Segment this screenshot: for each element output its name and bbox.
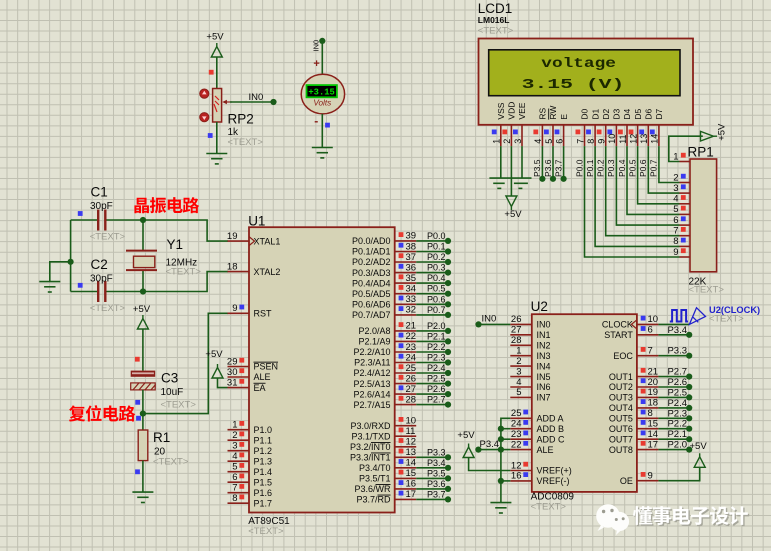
svg-text:P3.4: P3.4	[480, 439, 500, 450]
svg-text:OUT8: OUT8	[609, 445, 633, 455]
svg-text:14: 14	[406, 458, 417, 469]
junction reset node	[140, 411, 146, 417]
svg-text:<TEXT>: <TEXT>	[689, 284, 725, 295]
wire	[658, 407, 689, 409]
svg-text:ALE: ALE	[254, 372, 271, 382]
LCD pin 14 D7	[658, 125, 660, 146]
svg-text:RS: RS	[538, 107, 548, 119]
svg-text:P1.7: P1.7	[254, 498, 273, 508]
svg-text:11: 11	[406, 426, 416, 437]
node P3.5	[539, 176, 545, 182]
svg-text:P0.0: P0.0	[427, 231, 446, 241]
power +5V arrow OE	[694, 453, 705, 467]
svg-text:25: 25	[511, 408, 522, 419]
svg-text:+5V: +5V	[717, 123, 728, 141]
node P2.1	[445, 338, 451, 344]
svg-text:P2.2: P2.2	[427, 342, 446, 352]
svg-text:P3.4: P3.4	[667, 325, 687, 336]
wire	[585, 146, 680, 257]
svg-text:4: 4	[673, 194, 678, 205]
svg-text:OUT3: OUT3	[609, 393, 633, 403]
LCD pin 5 RW	[552, 125, 554, 146]
svg-text:1k: 1k	[228, 127, 240, 138]
svg-text:P1.5: P1.5	[254, 477, 273, 487]
svg-text:6: 6	[648, 325, 653, 336]
svg-text:RW: RW	[548, 106, 558, 120]
svg-text:OE: OE	[620, 476, 633, 486]
wire	[416, 393, 448, 395]
U2 pin 4 IN6	[510, 386, 532, 388]
wire +5V to C3	[142, 329, 144, 371]
svg-text:P2.5: P2.5	[427, 374, 446, 384]
U2 pin 20 OUT2	[637, 386, 659, 388]
svg-text:P2.2/A10: P2.2/A10	[353, 347, 390, 357]
svg-text:P3.4: P3.4	[427, 458, 446, 468]
wire voltmeter to ground	[321, 114, 323, 148]
svg-text:38: 38	[406, 241, 417, 252]
RP1 pin 4	[680, 203, 691, 205]
wire RP2 wiper to IN0	[230, 101, 274, 103]
svg-text:24: 24	[511, 419, 522, 430]
node P2.5	[445, 381, 451, 387]
U1 pin 21 P2.0/A8	[395, 330, 417, 332]
svg-text:30pF: 30pF	[90, 201, 113, 212]
svg-text:31: 31	[227, 377, 238, 388]
wire	[416, 372, 448, 374]
svg-text:8: 8	[232, 493, 237, 504]
svg-text:IN4: IN4	[537, 361, 551, 371]
svg-text:P3.7/RD: P3.7/RD	[356, 495, 391, 505]
junction XTAL1 net	[140, 217, 146, 223]
node P2.0	[445, 328, 451, 334]
svg-text:P2.7: P2.7	[667, 367, 687, 378]
svg-text:P0.3: P0.3	[606, 159, 616, 177]
RP1 pin 1	[680, 161, 691, 163]
node P3.6	[445, 486, 451, 492]
junction ADD C	[498, 436, 504, 442]
wire	[541, 146, 543, 179]
svg-text:18: 18	[227, 261, 238, 272]
junction VREF-	[498, 478, 504, 484]
U1 pin 5 P1.4	[228, 471, 250, 473]
svg-text:26: 26	[406, 373, 417, 384]
U1 pin 39 P0.0/AD0	[395, 240, 417, 242]
LCD pin 9 D2	[605, 125, 607, 146]
svg-text:U2: U2	[531, 299, 548, 314]
crystal Y1	[126, 251, 157, 271]
node P3.7	[561, 176, 567, 182]
svg-text:P2.1: P2.1	[667, 429, 687, 440]
wire	[658, 449, 689, 451]
svg-text:ALE: ALE	[537, 445, 554, 455]
svg-text:IN6: IN6	[537, 382, 551, 392]
wire	[669, 136, 703, 161]
svg-text:23: 23	[511, 429, 522, 440]
wire	[563, 146, 565, 179]
U1 pin 2 P1.1	[228, 439, 250, 441]
svg-text:<TEXT>: <TEXT>	[161, 399, 197, 410]
svg-text:4: 4	[533, 139, 543, 144]
wire	[416, 456, 448, 458]
svg-text:<TEXT>: <TEXT>	[228, 137, 264, 148]
U1 pin 31 EA	[228, 387, 250, 389]
U2 pin 7 EOC	[637, 355, 659, 357]
LCD pin 8 D1	[594, 125, 596, 146]
node P2.2	[686, 426, 692, 432]
node P2.6	[445, 391, 451, 397]
U1 pin 7 P1.6	[228, 492, 250, 494]
U1 pin 30 ALE	[228, 376, 250, 378]
svg-text:<TEXT>: <TEXT>	[153, 457, 189, 468]
svg-text:D1: D1	[590, 108, 600, 119]
svg-text:P0.5: P0.5	[627, 159, 637, 177]
LCD LM016L body	[479, 39, 694, 125]
svg-text:24: 24	[406, 352, 417, 363]
svg-text:P3.3: P3.3	[667, 346, 687, 357]
wire	[416, 383, 448, 385]
wire	[416, 467, 448, 469]
svg-text:5: 5	[673, 204, 678, 215]
U2 pin 23 ADD C	[510, 438, 532, 440]
svg-text:P0.6: P0.6	[427, 294, 446, 304]
svg-text:P0.0/AD0: P0.0/AD0	[352, 236, 391, 246]
U2 pin 1 IN3	[510, 355, 532, 357]
U1 pin 17 P3.7	[395, 498, 417, 500]
wire	[658, 428, 689, 430]
svg-text:7: 7	[648, 346, 653, 357]
indicator C2	[78, 283, 83, 288]
node P2.4	[686, 405, 692, 411]
U1 pin 26 P2.5/A13	[395, 383, 417, 385]
U2 pin 15 OUT6	[637, 428, 659, 430]
indicator RP2 bottom	[208, 133, 213, 138]
svg-text:P3.0/RXD: P3.0/RXD	[350, 421, 391, 431]
ground LCD VEE	[514, 183, 528, 188]
wire	[416, 498, 448, 500]
svg-text:P2.4: P2.4	[427, 363, 446, 373]
node P2.4	[445, 370, 451, 376]
watermark text	[634, 508, 653, 527]
svg-text:P2.6/A14: P2.6/A14	[353, 389, 390, 399]
svg-text:9: 9	[232, 303, 237, 314]
U1 pin 33 P0.6/AD6	[395, 303, 417, 305]
U1 pin 24 P2.3/A11	[395, 362, 417, 364]
svg-text:EOC: EOC	[613, 351, 633, 361]
svg-text:P3.5: P3.5	[427, 468, 446, 478]
wire	[616, 146, 679, 225]
svg-text:IN3: IN3	[537, 351, 551, 361]
svg-text:P3.5/T1: P3.5/T1	[359, 474, 391, 484]
node P3.4	[686, 332, 692, 338]
svg-text:27: 27	[511, 325, 522, 336]
svg-text:P0.7/AD7: P0.7/AD7	[352, 310, 391, 320]
node P0.6	[445, 301, 451, 307]
U1 pin 28 P2.7/A15	[395, 404, 417, 406]
svg-text:3: 3	[513, 139, 523, 144]
wire	[416, 314, 448, 316]
ground crystal	[39, 282, 60, 292]
ground RP2	[206, 154, 227, 164]
svg-text:4: 4	[516, 377, 521, 388]
svg-text:OUT2: OUT2	[609, 382, 633, 392]
svg-text:2: 2	[232, 430, 237, 441]
U1 pin 15 P3.5	[395, 477, 417, 479]
wire	[416, 303, 448, 305]
LCD pin 3 VEE	[521, 125, 523, 146]
RP1 pin 8	[680, 245, 691, 247]
junction ADD B	[498, 426, 504, 432]
U2 pin 25 ADD A	[510, 417, 532, 419]
svg-text:3: 3	[516, 366, 521, 377]
wire reset to RST	[143, 313, 228, 413]
svg-text:+5V: +5V	[205, 349, 223, 360]
resistor pack RP1	[690, 159, 717, 272]
svg-text:1: 1	[673, 151, 678, 162]
svg-text:P2.4: P2.4	[667, 398, 687, 409]
wire	[416, 330, 448, 332]
U2 pin 14 OUT7	[637, 438, 659, 440]
svg-text:RST: RST	[254, 309, 273, 319]
svg-text:+5V: +5V	[457, 430, 475, 441]
svg-text:P2.3/A11: P2.3/A11	[354, 358, 390, 368]
LCD pin 1 VSS	[500, 125, 502, 146]
svg-text:32: 32	[406, 305, 417, 316]
svg-text:P1.0: P1.0	[254, 425, 273, 435]
wire	[510, 146, 512, 195]
node P0.1	[445, 248, 451, 254]
svg-text:+5V: +5V	[690, 441, 708, 452]
U2 pin 2 IN4	[510, 365, 532, 367]
U1 pin 22 P2.1/A9	[395, 340, 417, 342]
svg-text:P2.0/A8: P2.0/A8	[358, 326, 390, 336]
op-amp U1 body AT89C51	[249, 227, 395, 512]
node IN0 at RP2	[270, 99, 276, 105]
svg-text:<TEXT>: <TEXT>	[709, 314, 744, 324]
node P0.4	[445, 280, 451, 286]
wire	[658, 323, 689, 325]
RP1 pin 5	[680, 213, 691, 215]
svg-text:PSEN: PSEN	[254, 362, 279, 372]
svg-text:P2.0: P2.0	[427, 321, 446, 331]
svg-text:Volts: Volts	[313, 99, 331, 108]
node P2.1	[686, 436, 692, 442]
wire	[501, 438, 510, 440]
wire	[658, 334, 689, 336]
U2 pin 9 OE	[637, 480, 659, 482]
svg-text:+5V: +5V	[206, 31, 224, 42]
svg-text:P3.6/WR: P3.6/WR	[354, 484, 391, 494]
power +5V arrow C3	[137, 315, 148, 329]
svg-text:33: 33	[406, 294, 417, 305]
caption reset circuit (red)	[69, 405, 85, 421]
svg-text:D4: D4	[622, 108, 632, 119]
node P0.2	[445, 259, 451, 265]
wire from crystal bottom	[142, 270, 144, 291]
svg-text:IN5: IN5	[537, 372, 551, 382]
wire bus to ground	[50, 262, 71, 282]
svg-text:+3.15: +3.15	[308, 87, 334, 97]
svg-text:OUT1: OUT1	[609, 372, 633, 382]
wire	[489, 177, 531, 179]
svg-text:17: 17	[648, 439, 659, 450]
svg-text:XTAL2: XTAL2	[254, 267, 281, 277]
svg-text:OUT4: OUT4	[609, 403, 633, 413]
wire C2 left	[71, 291, 99, 293]
svg-text:IN0: IN0	[537, 320, 551, 330]
svg-text:RP2: RP2	[228, 112, 254, 127]
U2 pin 3 IN5	[510, 376, 532, 378]
svg-text:IN0: IN0	[312, 40, 321, 52]
svg-text:P0.3/AD3: P0.3/AD3	[352, 268, 391, 278]
svg-text:<TEXT>: <TEXT>	[90, 303, 126, 314]
svg-text:P0.4/AD4: P0.4/AD4	[352, 278, 391, 288]
svg-text:P2.1/A9: P2.1/A9	[358, 337, 390, 347]
RP2 adjust buttons	[200, 89, 209, 98]
RP1 pin 3	[680, 192, 691, 194]
svg-text:28: 28	[406, 394, 417, 405]
svg-text:P2.6: P2.6	[667, 377, 687, 388]
LCD pin 10 D3	[615, 125, 617, 146]
svg-text:ADD C: ADD C	[537, 434, 566, 444]
svg-text:D7: D7	[654, 108, 664, 119]
svg-text:<TEXT>: <TEXT>	[90, 232, 126, 243]
svg-text:10: 10	[607, 134, 617, 144]
wire	[658, 376, 689, 378]
svg-text:P2.7/A15: P2.7/A15	[353, 400, 390, 410]
U1 pin 13 P3.3	[395, 456, 417, 458]
svg-text:EA: EA	[254, 383, 266, 393]
U2 pin 28 IN2	[510, 344, 532, 346]
wire	[416, 477, 448, 479]
svg-text:P0.1: P0.1	[585, 159, 595, 177]
wire	[501, 480, 510, 482]
wire	[416, 362, 448, 364]
node P0.3	[445, 270, 451, 276]
svg-text:VSS: VSS	[496, 102, 506, 119]
RP1 pin 9	[680, 256, 691, 258]
svg-text:P0.2: P0.2	[427, 252, 446, 262]
svg-text:P1.6: P1.6	[254, 488, 273, 498]
node P2.3	[686, 415, 692, 421]
wire	[658, 355, 689, 357]
svg-text:9: 9	[648, 471, 653, 482]
svg-text:P0.5: P0.5	[427, 284, 446, 294]
indicator RP2 top	[209, 70, 214, 75]
U1 pin 12 P3.2	[395, 446, 417, 448]
junction ALE	[498, 447, 504, 453]
svg-text:P0.6/AD6: P0.6/AD6	[352, 300, 391, 310]
svg-text:P3.3/INT1: P3.3/INT1	[350, 453, 391, 463]
node P3.7	[445, 496, 451, 502]
svg-text:RP1: RP1	[688, 145, 714, 160]
svg-text:9: 9	[673, 247, 678, 258]
svg-text:P0.3: P0.3	[427, 263, 446, 273]
svg-text:-: -	[314, 114, 318, 128]
node P2.6	[686, 384, 692, 390]
wire	[658, 396, 689, 398]
LCD pin 12 D5	[637, 125, 639, 146]
U2 pin 8 OUT5	[637, 417, 659, 419]
indicator R1 bottom	[135, 469, 140, 474]
U1 pin 37 P0.2/AD2	[395, 261, 417, 263]
wire C3 to R1	[142, 390, 144, 430]
ADC U2 body ADC0809	[532, 314, 637, 492]
watermark logo bubbles	[596, 504, 629, 535]
svg-text:+5V: +5V	[133, 304, 151, 315]
LCD pin 13 D6	[647, 125, 649, 146]
svg-text:IN2: IN2	[537, 341, 551, 351]
svg-text:P2.3: P2.3	[427, 353, 446, 363]
U1 pin 4 P1.3	[228, 460, 250, 462]
svg-text:18: 18	[648, 398, 659, 409]
wire R1 to ground	[142, 461, 144, 493]
svg-text:P2.6: P2.6	[427, 384, 446, 394]
svg-text:P3.7: P3.7	[427, 489, 446, 499]
svg-text:15: 15	[648, 419, 659, 430]
LCD pin 2 VDD	[510, 125, 512, 146]
svg-text:36: 36	[406, 262, 417, 273]
wire	[638, 146, 680, 204]
U1 pin 29 PSEN	[228, 366, 250, 368]
svg-text:P2.5/A13: P2.5/A13	[353, 379, 390, 389]
U1 pin 25 P2.4/A12	[395, 372, 417, 374]
U1 pin 27 P2.6/A14	[395, 393, 417, 395]
svg-text:7: 7	[673, 226, 678, 237]
indicator voltmeter	[325, 123, 330, 128]
wire	[595, 146, 679, 246]
wire	[659, 146, 680, 182]
U1 pin 10 P3.0	[395, 425, 417, 427]
U1 pin 6 P1.5	[228, 481, 250, 483]
node P0.0	[445, 238, 451, 244]
svg-text:P2.3: P2.3	[667, 408, 687, 419]
U1 pin 19 XTAL1	[228, 240, 250, 242]
power +5V arrow EA	[212, 364, 223, 378]
RP1 pin 2	[680, 182, 691, 184]
svg-text:P0.0: P0.0	[574, 159, 584, 177]
svg-text:14: 14	[648, 429, 659, 440]
svg-text:P2.1: P2.1	[427, 331, 446, 341]
svg-text:P0.6: P0.6	[638, 159, 648, 177]
RP1 pin 7	[680, 235, 691, 237]
svg-text:VDD: VDD	[507, 102, 517, 120]
wire	[416, 488, 448, 490]
svg-text:34: 34	[406, 284, 417, 295]
svg-text:5: 5	[516, 387, 521, 398]
svg-text:P2.4/A12: P2.4/A12	[353, 368, 390, 378]
U1 pin 34 P0.5/AD5	[395, 293, 417, 295]
node P2.2	[445, 349, 451, 355]
svg-text:30: 30	[227, 367, 238, 378]
svg-text:OUT5: OUT5	[609, 414, 633, 424]
node P2.5	[686, 394, 692, 400]
svg-text:D0: D0	[580, 108, 590, 119]
wire	[658, 386, 689, 388]
ground LCD VSS	[493, 183, 505, 188]
svg-text:10: 10	[406, 416, 417, 427]
svg-text:7: 7	[575, 139, 585, 144]
wire C1 to XTAL1	[105, 220, 228, 241]
svg-text:D6: D6	[644, 108, 654, 119]
wire	[552, 146, 554, 179]
svg-text:P0.5/AD5: P0.5/AD5	[352, 289, 391, 299]
wire	[416, 404, 448, 406]
svg-text:P0.7: P0.7	[649, 159, 659, 177]
wire +5V to EA	[218, 378, 228, 388]
svg-text:12: 12	[406, 437, 417, 448]
svg-text:P0.1/AD1: P0.1/AD1	[352, 247, 391, 257]
svg-text:voltage: voltage	[541, 57, 616, 72]
